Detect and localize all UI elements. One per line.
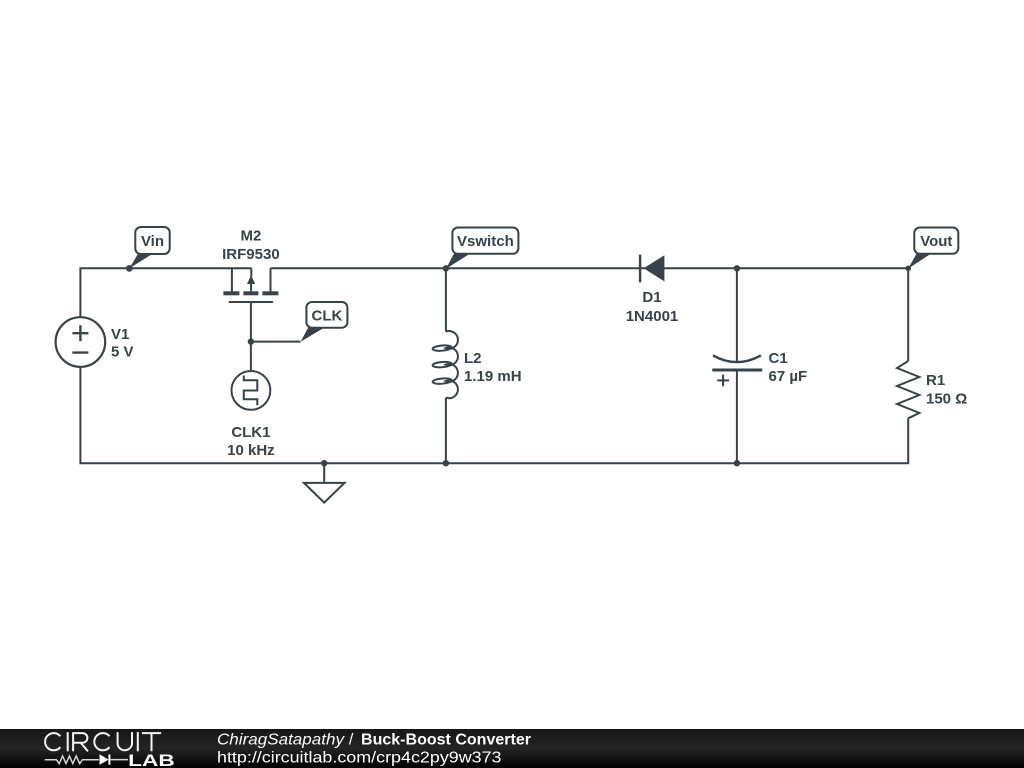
node flag Vin xyxy=(129,227,169,268)
junction node Vout dot xyxy=(905,266,911,272)
wire C1 branch lower xyxy=(736,370,738,463)
junction node L2 bottom dot xyxy=(443,460,449,466)
diode D1 xyxy=(640,255,664,283)
wire Vswitch branch lower (L2 bottom lead) xyxy=(445,398,447,464)
wire top-right from M2 to Vout corner and R1 top lead xyxy=(271,268,909,361)
svg-text:5 V: 5 V xyxy=(111,344,134,361)
junction node diode-C1 dot xyxy=(734,265,740,271)
wire CLK1 top lead xyxy=(250,342,252,372)
svg-text:150 Ω: 150 Ω xyxy=(926,391,967,408)
node flag Vout xyxy=(908,228,958,269)
svg-text:R1: R1 xyxy=(926,372,945,389)
svg-text:M2: M2 xyxy=(240,228,261,245)
svg-text:67 µF: 67 µF xyxy=(769,368,808,385)
svg-text:IRF9530: IRF9530 xyxy=(222,246,280,263)
svg-text:Vout: Vout xyxy=(920,233,952,250)
junction node ground dot xyxy=(321,460,327,466)
node flag CLK xyxy=(301,302,348,342)
svg-text:CLK: CLK xyxy=(311,308,342,325)
label C1 67 uF xyxy=(769,350,808,385)
label D1 1N4001 xyxy=(626,289,679,325)
resistor R1 xyxy=(897,361,919,418)
footer bar xyxy=(0,729,1024,768)
inductor L2 xyxy=(432,331,458,398)
svg-text:Vswitch: Vswitch xyxy=(457,233,514,250)
clock source CLK1 xyxy=(232,371,271,410)
svg-text:Vin: Vin xyxy=(141,233,164,250)
wire Vswitch branch upper (L2 top lead) xyxy=(445,268,447,331)
svg-text:1.19 mH: 1.19 mH xyxy=(464,368,522,385)
voltage source V1 xyxy=(56,317,106,367)
label R1 150 Ohm xyxy=(926,372,967,408)
transistor Q M2 PMOS symbol xyxy=(223,268,278,302)
wire C1 branch upper xyxy=(736,268,738,361)
junction node Vswitch dot xyxy=(443,265,449,271)
label V1 5 V xyxy=(111,326,134,361)
ground xyxy=(304,463,345,502)
svg-text:Buck-Boost Converter: Buck-Boost Converter xyxy=(361,731,531,748)
svg-text:LAB: LAB xyxy=(128,751,175,768)
svg-text:10 kHz: 10 kHz xyxy=(227,442,275,459)
svg-text:http://circuitlab.com/crp4c2py: http://circuitlab.com/crp4c2py9w373 xyxy=(217,750,502,767)
junction node Vin dot xyxy=(126,265,133,272)
svg-text:C1: C1 xyxy=(769,350,788,367)
svg-text:D1: D1 xyxy=(642,289,661,306)
junction node gate-CLK dot xyxy=(248,338,254,344)
label M2 IRF9530 xyxy=(222,228,280,264)
svg-text:ChiragSatapathy: ChiragSatapathy xyxy=(217,731,345,748)
svg-text:V1: V1 xyxy=(111,326,129,343)
label L2 1.19 mH xyxy=(464,350,522,385)
label CLK1 10 kHz xyxy=(227,424,275,459)
svg-text:CLK1: CLK1 xyxy=(231,424,270,441)
capacitor C1 xyxy=(712,355,762,386)
wire top-left from M2 to V1 top lead xyxy=(80,268,251,317)
wire M2 gate lead xyxy=(250,302,252,342)
svg-text:1N4001: 1N4001 xyxy=(626,308,679,325)
wire CLK net horizontal xyxy=(251,341,301,343)
svg-text:/: / xyxy=(349,731,354,748)
svg-text:L2: L2 xyxy=(464,350,482,367)
junction node C1 bottom dot xyxy=(734,460,740,466)
wire V1 bottom lead, bottom rail, R1 bottom lead xyxy=(80,367,908,463)
node flag Vswitch xyxy=(446,228,519,269)
